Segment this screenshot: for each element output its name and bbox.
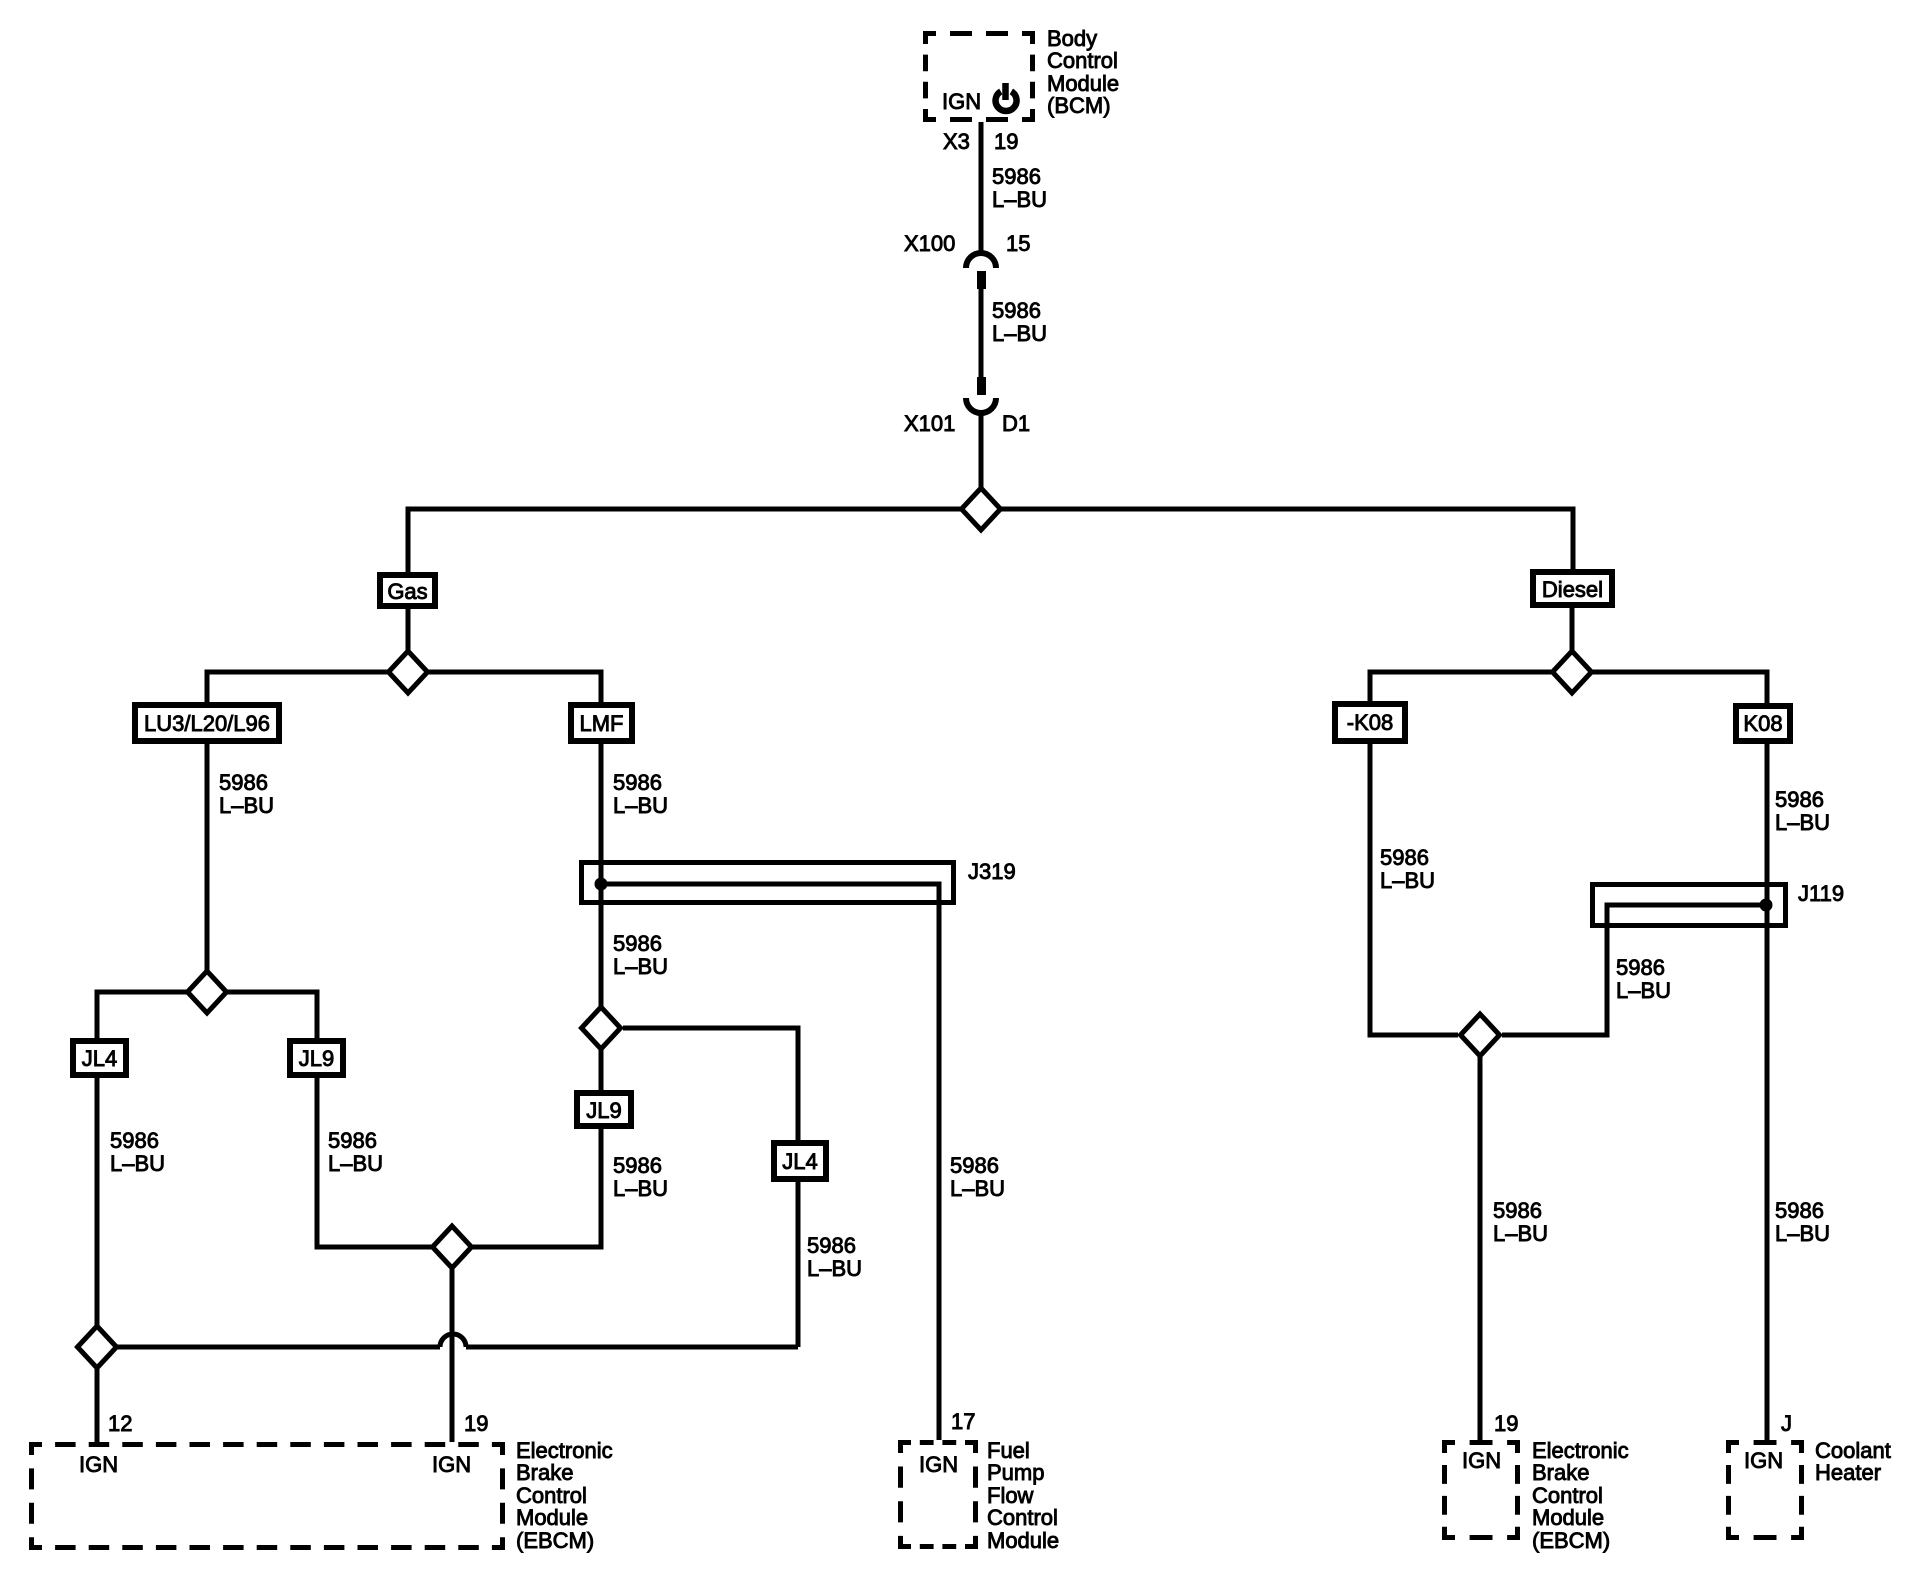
- svg-text:5986: 5986: [950, 1153, 999, 1178]
- svg-text:15: 15: [1006, 231, 1030, 256]
- splice diamond S8: [1461, 1014, 1500, 1056]
- wire JL4-1 down to splice S5 and EBCM pin 12: [95, 1078, 100, 1442]
- wire JL4-2 down to bottom horizontal: [796, 1182, 801, 1347]
- module BCM dashed box: [923, 31, 1035, 122]
- svg-text:Control: Control: [1047, 48, 1118, 73]
- svg-text:L–BU: L–BU: [328, 1151, 383, 1176]
- svg-text:L–BU: L–BU: [1775, 810, 1830, 835]
- svg-text:Gas: Gas: [387, 579, 427, 604]
- svg-text:(EBCM): (EBCM): [1532, 1528, 1610, 1553]
- svg-text:L–BU: L–BU: [110, 1151, 165, 1176]
- svg-text:L–BU: L–BU: [1616, 978, 1671, 1003]
- wire J119 tap left and down to splice S8: [1502, 905, 1766, 1035]
- splice pack J119 box: [1593, 885, 1786, 926]
- junction dot in J119: [1760, 899, 1773, 912]
- wire Gas box to splice S2: [406, 609, 411, 694]
- svg-text:Module: Module: [1532, 1505, 1604, 1530]
- svg-text:5986: 5986: [807, 1233, 856, 1258]
- svg-text:Pump: Pump: [987, 1460, 1044, 1485]
- wire LMF down through J319 to splice S4: [599, 744, 604, 1050]
- module EBCM right dashed box: [1442, 1440, 1520, 1540]
- option box Diesel: [1533, 572, 1612, 605]
- option box JL4 center: [774, 1143, 826, 1179]
- svg-text:J: J: [1781, 1411, 1792, 1436]
- svg-text:JL9: JL9: [299, 1046, 334, 1071]
- svg-text:Brake: Brake: [1532, 1460, 1589, 1485]
- module EBCM left dashed box: [29, 1442, 505, 1550]
- option box -K08: [1335, 704, 1405, 741]
- svg-text:L–BU: L–BU: [613, 1176, 668, 1201]
- svg-text:Module: Module: [516, 1505, 588, 1530]
- wire S3 horizontal to JL4 and JL9: [97, 992, 317, 1038]
- splice diamond S5: [78, 1326, 117, 1368]
- splice pack J319 box: [582, 863, 954, 903]
- svg-text:5986: 5986: [992, 298, 1041, 323]
- wire S4 to JL4-2: [623, 1028, 798, 1140]
- splice diamond S6: [433, 1226, 472, 1268]
- svg-text:JL9: JL9: [586, 1098, 621, 1123]
- svg-text:L–BU: L–BU: [1775, 1221, 1830, 1246]
- svg-text:5986: 5986: [1775, 1198, 1824, 1223]
- splice diamond S2: [389, 651, 428, 693]
- wire X100 to X101: [979, 288, 984, 377]
- svg-text:IGN: IGN: [1744, 1448, 1783, 1473]
- svg-text:IGN: IGN: [1462, 1448, 1501, 1473]
- svg-text:5986: 5986: [613, 770, 662, 795]
- svg-text:19: 19: [994, 129, 1018, 154]
- svg-text:5986: 5986: [992, 164, 1041, 189]
- svg-text:(EBCM): (EBCM): [516, 1528, 594, 1553]
- svg-text:-K08: -K08: [1347, 710, 1393, 735]
- svg-text:L–BU: L–BU: [992, 187, 1047, 212]
- junction dot in J319: [595, 878, 608, 891]
- svg-text:J319: J319: [968, 859, 1016, 884]
- svg-text:IGN: IGN: [432, 1452, 471, 1477]
- wire -K08 down and right to splice S8: [1370, 744, 1458, 1035]
- svg-text:5986: 5986: [328, 1128, 377, 1153]
- option box JL9 left: [290, 1041, 343, 1075]
- svg-text:J119: J119: [1798, 881, 1844, 906]
- option box JL9 center: [577, 1093, 631, 1126]
- wire K08 down through J119 to Coolant Heater pin J: [1765, 744, 1770, 1440]
- svg-text:5986: 5986: [219, 770, 268, 795]
- splice diamond S3: [188, 971, 227, 1013]
- wire S7 horizontal to -K08 and K08: [1370, 672, 1767, 703]
- svg-text:5986: 5986: [613, 931, 662, 956]
- svg-text:X3: X3: [943, 129, 970, 154]
- option box Gas: [380, 575, 435, 606]
- svg-text:5986: 5986: [1616, 955, 1665, 980]
- svg-text:Heater: Heater: [1815, 1460, 1881, 1485]
- svg-text:L–BU: L–BU: [950, 1176, 1005, 1201]
- svg-text:5986: 5986: [1380, 845, 1429, 870]
- wire X101 to splice S1: [979, 412, 984, 509]
- wire trunk from BCM to X100: [979, 122, 984, 253]
- svg-text:L–BU: L–BU: [613, 954, 668, 979]
- svg-text:IGN: IGN: [79, 1452, 118, 1477]
- svg-text:17: 17: [951, 1409, 975, 1434]
- option box LU3/L20/L96: [135, 705, 279, 741]
- svg-text:X100: X100: [904, 231, 955, 256]
- svg-text:Brake: Brake: [516, 1460, 573, 1485]
- wire J319 splice out to Fuel Pump pin 17: [601, 884, 939, 1440]
- svg-text:19: 19: [1494, 1411, 1518, 1436]
- svg-text:19: 19: [464, 1411, 488, 1436]
- svg-text:D1: D1: [1002, 411, 1030, 436]
- splice diamond S1: [962, 488, 1001, 530]
- svg-text:LU3/L20/L96: LU3/L20/L96: [144, 711, 270, 736]
- svg-text:Diesel: Diesel: [1542, 577, 1603, 602]
- wire main horizontal bus at S1: [408, 509, 1573, 572]
- svg-text:LMF: LMF: [580, 711, 624, 736]
- svg-text:12: 12: [108, 1411, 132, 1436]
- connector X100 halves: [966, 253, 996, 289]
- option box JL4 left: [73, 1041, 126, 1075]
- svg-text:L–BU: L–BU: [1493, 1221, 1548, 1246]
- wire splice S8 down to EBCM pin 19 right: [1478, 1035, 1483, 1440]
- splice diamond S7: [1553, 651, 1592, 693]
- svg-text:IGN: IGN: [919, 1452, 958, 1477]
- svg-text:L–BU: L–BU: [613, 793, 668, 818]
- svg-text:X101: X101: [904, 411, 955, 436]
- option box K08: [1736, 706, 1790, 741]
- svg-text:(BCM): (BCM): [1047, 93, 1111, 118]
- svg-text:IGN: IGN: [942, 89, 981, 114]
- connector X101 halves: [966, 377, 996, 413]
- wire hop over vertical at x452: [440, 1334, 466, 1347]
- svg-text:5986: 5986: [1775, 787, 1824, 812]
- module Coolant Heater dashed box: [1726, 1440, 1804, 1540]
- wire splice S6 down to EBCM pin 19: [450, 1247, 455, 1442]
- svg-text:JL4: JL4: [782, 1149, 817, 1174]
- svg-text:Module: Module: [987, 1528, 1059, 1553]
- wire LU3 down to splice S3: [205, 744, 210, 1014]
- svg-text:5986: 5986: [1493, 1198, 1542, 1223]
- svg-text:L–BU: L–BU: [992, 321, 1047, 346]
- option box LMF: [571, 705, 632, 741]
- wire S2 horizontal to LU3 and LMF branches: [207, 672, 601, 702]
- svg-text:L–BU: L–BU: [807, 1256, 862, 1281]
- wire bottom horizontal S5 to JL4-2 with hop: [97, 1345, 440, 1350]
- svg-text:K08: K08: [1743, 711, 1782, 736]
- svg-text:L–BU: L–BU: [219, 793, 274, 818]
- svg-text:JL4: JL4: [82, 1046, 117, 1071]
- splice diamond S4: [582, 1007, 621, 1049]
- power symbol icon in BCM: [996, 83, 1017, 111]
- svg-text:5986: 5986: [110, 1128, 159, 1153]
- svg-text:L–BU: L–BU: [1380, 868, 1435, 893]
- module Fuel Pump Flow Control Module dashed box: [898, 1440, 978, 1549]
- wire S4 down to JL9 center: [599, 1050, 604, 1093]
- wire JL9-1 down to splice S6: [317, 1078, 601, 1247]
- svg-text:5986: 5986: [613, 1153, 662, 1178]
- svg-text:Control: Control: [987, 1505, 1058, 1530]
- wire Diesel box to splice S7: [1570, 608, 1575, 694]
